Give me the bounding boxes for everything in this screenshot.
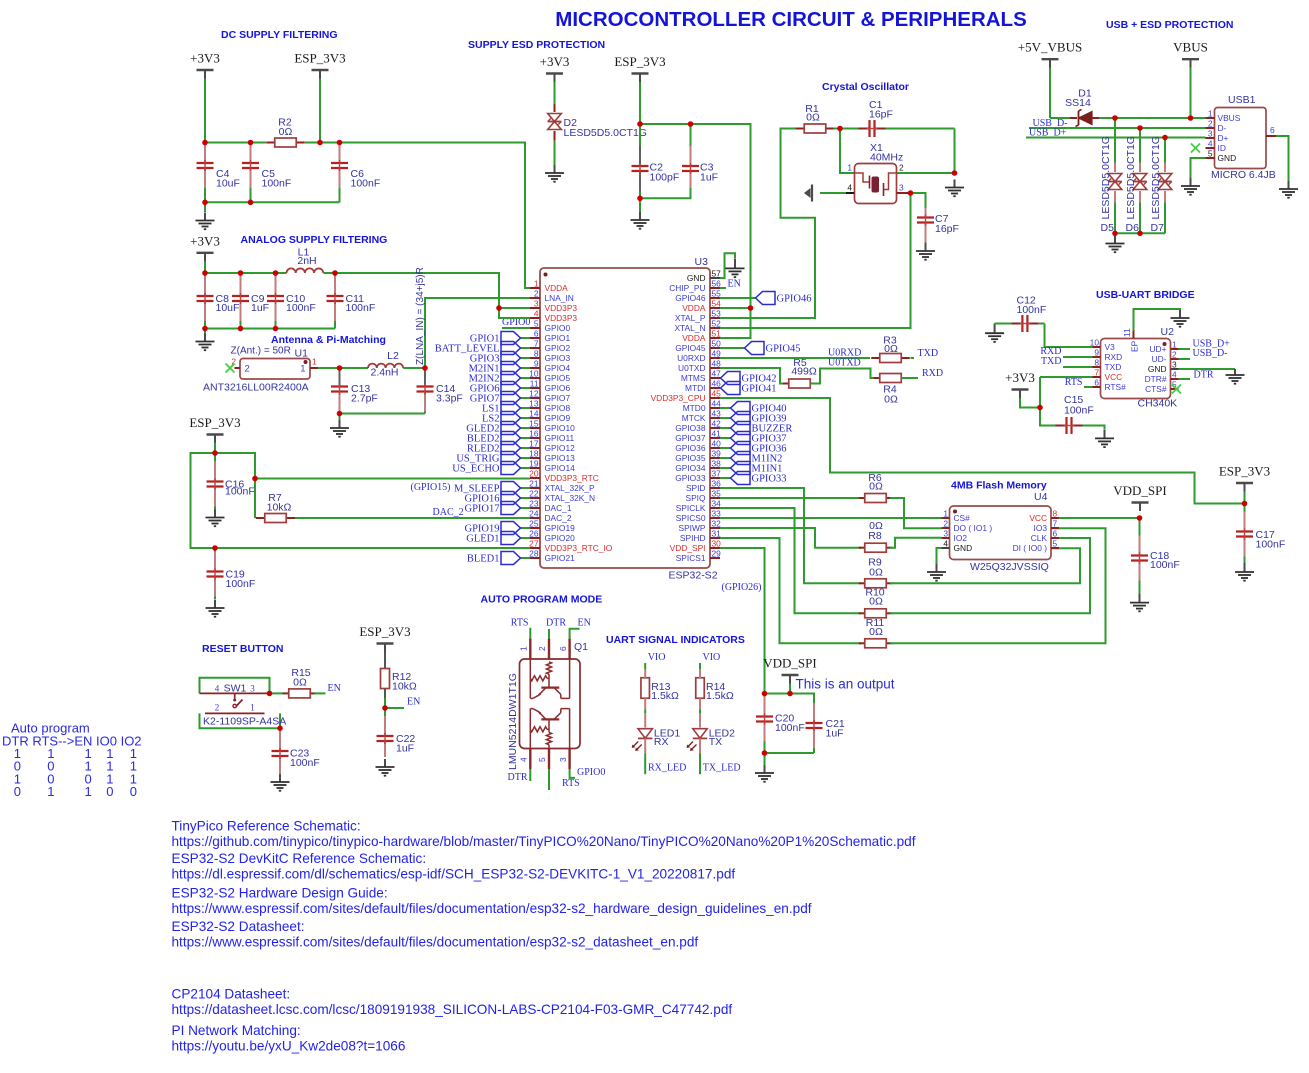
Q1 pin numbers top: [519, 646, 568, 651]
svg-text:1: 1: [1172, 340, 1177, 350]
svg-text:EN: EN: [407, 697, 420, 708]
power flag ESP_3V3 (EN pullup): [359, 624, 410, 652]
wire EN stub: [385, 707, 404, 709]
capacitor C7: [917, 208, 934, 243]
svg-text:10uF: 10uF: [216, 178, 240, 190]
inductor L1: [287, 268, 324, 273]
wire: [521, 417, 531, 419]
U4 left pins: [942, 509, 993, 554]
svg-text:23: 23: [529, 499, 539, 509]
svg-text:17: 17: [529, 439, 539, 449]
net label RTS (Q1 top): [511, 618, 529, 629]
U3 right pins: [651, 269, 722, 564]
svg-text:GPIO45: GPIO45: [766, 344, 801, 355]
svg-text:13: 13: [529, 399, 539, 409]
ground (C18): [1130, 594, 1149, 611]
svg-text:EN: EN: [328, 683, 341, 694]
svg-text:1: 1: [534, 279, 539, 289]
U1 orientation dot: [304, 360, 308, 364]
C18 labels: [1150, 550, 1180, 571]
net label TX_LED: [703, 763, 741, 774]
resistor R10: [859, 609, 893, 618]
D6 vertical value label: [1125, 136, 1137, 219]
ground (C23): [271, 774, 290, 791]
wire D5 bottom: [1114, 203, 1116, 234]
wire U4 GND pin to ground: [937, 548, 942, 564]
wire: [521, 377, 531, 379]
svg-text:+3V3: +3V3: [1005, 370, 1035, 385]
svg-text:2: 2: [245, 364, 250, 375]
wire top rail DC: [205, 142, 266, 144]
wire ESD rail right and down to chip area: [640, 124, 751, 338]
svg-text:54: 54: [712, 299, 722, 309]
svg-text:+3V3: +3V3: [190, 51, 220, 66]
U4 orientation dot: [953, 510, 957, 514]
wire: [521, 337, 531, 339]
C9 labels: [251, 293, 269, 314]
svg-text:55: 55: [712, 289, 722, 299]
switch SW1 wiring loop bottom: [200, 713, 281, 728]
svg-text:38: 38: [712, 459, 722, 469]
ground (U2 EP): [1171, 310, 1190, 327]
wire analog bottom rail: [205, 328, 335, 330]
wire GPIO45: [720, 347, 745, 349]
D7 ref label: [1151, 222, 1165, 234]
wire ESP_3V3 to junction: [214, 443, 216, 454]
wire rail right to R7 branch: [215, 453, 255, 479]
wire Q1 pin6 top: [570, 629, 580, 639]
wire +5V_VBUS down: [1049, 68, 1051, 119]
svg-text:20: 20: [529, 469, 539, 479]
svg-text:11: 11: [530, 379, 539, 389]
power flag ESP_3V3 (DC filter): [294, 51, 345, 79]
net label EN (Q1 top): [578, 618, 591, 629]
net label DAC_2: [433, 507, 464, 518]
net label USB_D- (U2): [1193, 348, 1228, 359]
svg-text:10: 10: [529, 369, 539, 379]
svg-text:LESD5D5.0CT1G: LESD5D5.0CT1G: [1125, 136, 1137, 219]
wire junction to L2: [340, 367, 369, 369]
svg-text:50: 50: [712, 339, 722, 349]
junction: [332, 270, 338, 276]
wire U0RXD row to R3: [720, 357, 870, 359]
svg-text:GPIO4: GPIO4: [545, 363, 571, 373]
resistor R11: [859, 639, 893, 648]
svg-text:2: 2: [899, 163, 904, 173]
svg-text:UART SIGNAL INDICATORS: UART SIGNAL INDICATORS: [606, 634, 745, 646]
svg-text:42: 42: [712, 419, 722, 429]
svg-text:GPIO0: GPIO0: [577, 767, 605, 778]
svg-text:ESP_3V3: ESP_3V3: [294, 51, 345, 66]
svg-text:GPIO9: GPIO9: [545, 413, 571, 423]
svg-text:USB_D-: USB_D-: [1193, 348, 1228, 359]
wire SPID pin36 to R9: [720, 488, 861, 583]
svg-text:GPIO17: GPIO17: [464, 504, 499, 515]
net label RTS (U2): [1065, 377, 1083, 388]
svg-text:SPICLK: SPICLK: [676, 503, 706, 513]
svg-text:1: 1: [943, 509, 948, 519]
svg-text:0Ω: 0Ω: [806, 112, 820, 124]
ground (C7): [916, 243, 935, 260]
capacitor C12: [995, 315, 1045, 332]
section header SUPPLY ESD PROTECTION: [468, 39, 605, 51]
USB1 ref: [1228, 94, 1256, 106]
C7 labels: [935, 213, 959, 235]
svg-text:Q1: Q1: [574, 641, 588, 653]
svg-text:https://github.com/tinypico/ti: https://github.com/tinypico/tinypico-har…: [172, 834, 916, 849]
vertical text Z(LNA_IN): [415, 267, 426, 365]
wire SPIWP pin32 to R8: [720, 528, 861, 548]
svg-text:3: 3: [899, 183, 904, 193]
capacitor C5: [242, 143, 259, 203]
svg-text:SPIHD: SPIHD: [680, 533, 706, 543]
svg-text:XTAL_P: XTAL_P: [675, 313, 706, 323]
svg-text:VDD3P3_CPU: VDD3P3_CPU: [651, 393, 706, 403]
wire: [720, 417, 731, 419]
global label BUZZER: [731, 422, 793, 435]
wire resistor to LED: [644, 698, 646, 727]
wire C12 right to V3 pin: [1045, 324, 1101, 348]
wire U2 GND to ground: [1179, 368, 1236, 370]
R9 labels: [868, 557, 883, 579]
svg-text:GPIO20: GPIO20: [545, 533, 576, 543]
global label GPIO3: [470, 352, 521, 365]
wire R6 right to flash DO: [890, 498, 942, 528]
resistor R6: [859, 494, 893, 503]
svg-text:GPIO33: GPIO33: [675, 473, 706, 483]
wire D5 top: [1114, 118, 1116, 163]
wire D6 bottom: [1139, 203, 1141, 234]
svg-text:https://www.espressif.com/site: https://www.espressif.com/sites/default/…: [172, 934, 699, 949]
svg-text:VCC: VCC: [1105, 372, 1123, 382]
svg-text:RX_LED: RX_LED: [648, 763, 686, 774]
junction: [1037, 405, 1043, 411]
ground (C16): [206, 510, 225, 527]
svg-text:15: 15: [529, 419, 539, 429]
wire cap rail top: [765, 694, 815, 704]
resistor R3: [871, 354, 910, 363]
junction: [908, 190, 914, 196]
svg-text:ESP_3V3: ESP_3V3: [1219, 464, 1270, 479]
net label TXD (U2): [1041, 356, 1062, 367]
D7 vertical value label: [1150, 136, 1162, 219]
junction: [952, 170, 958, 176]
svg-text:USB-UART BRIDGE: USB-UART BRIDGE: [1096, 289, 1195, 301]
R1 labels: [805, 103, 820, 124]
R7 labels: [267, 492, 292, 514]
svg-text:16pF: 16pF: [935, 223, 959, 235]
svg-text:GND: GND: [1218, 153, 1237, 163]
svg-text:CTS#: CTS#: [1145, 384, 1167, 394]
svg-text:DTR: DTR: [546, 618, 566, 629]
svg-text:SW1: SW1: [224, 682, 247, 694]
ground (C15): [1095, 429, 1114, 447]
svg-text:TXD: TXD: [1041, 356, 1062, 367]
SW1 pin numbers 2 and 1: [215, 702, 255, 712]
USB1 left pins: [1206, 109, 1241, 164]
wire GPIO46: [720, 297, 756, 299]
svg-text:100nF: 100nF: [286, 302, 316, 314]
global label GPIO37: [731, 432, 787, 445]
svg-text:7: 7: [1053, 519, 1058, 529]
svg-text:14: 14: [529, 409, 539, 419]
resistor R4: [874, 374, 908, 383]
svg-text:RXD: RXD: [1105, 352, 1123, 362]
section header AUTO PROGRAM MODE: [481, 594, 603, 606]
section header UART SIGNAL INDICATORS: [606, 634, 745, 646]
section header 4MB Flash Memory: [951, 480, 1047, 492]
svg-text:VDD3P3_RTC_IO: VDD3P3_RTC_IO: [545, 543, 613, 553]
svg-text:GPIO41: GPIO41: [742, 384, 777, 395]
svg-text:UD+: UD+: [1150, 344, 1167, 354]
svg-text:DTR: DTR: [508, 772, 528, 783]
svg-text:ESP_3V3: ESP_3V3: [189, 415, 240, 430]
no-connect X on U1 pin2: [226, 364, 235, 373]
svg-text:XTAL_N: XTAL_N: [674, 323, 705, 333]
junction: [762, 691, 768, 697]
capacitor C15: [1050, 417, 1093, 434]
svg-text:DTR#: DTR#: [1145, 374, 1167, 384]
svg-text:52: 52: [712, 319, 722, 329]
wire VIO stub: [699, 663, 701, 669]
wire RTS to U2: [1084, 386, 1093, 388]
svg-text:VDD_SPI: VDD_SPI: [763, 656, 816, 671]
svg-text:GND: GND: [954, 543, 973, 553]
power flag ESP_3V3 (ESD): [614, 54, 665, 82]
Q1 vertical value label LMUN5214DW1T1G: [507, 673, 519, 770]
ground (C12): [985, 324, 1004, 342]
power flag +5V_VBUS: [1018, 40, 1082, 68]
svg-text:2nH: 2nH: [297, 255, 316, 267]
svg-text:1.5kΩ: 1.5kΩ: [706, 690, 734, 702]
svg-text:57: 57: [712, 269, 722, 279]
svg-text:GPIO34: GPIO34: [675, 463, 706, 473]
svg-text:11: 11: [1122, 328, 1132, 337]
svg-text:7: 7: [1094, 368, 1099, 378]
svg-text:4: 4: [1208, 139, 1213, 149]
svg-text:VDD3P3: VDD3P3: [545, 303, 578, 313]
svg-text:RESET BUTTON: RESET BUTTON: [202, 643, 283, 655]
svg-text:3: 3: [558, 757, 568, 762]
ground (C22): [376, 759, 395, 776]
wire: [720, 467, 731, 469]
TVS diode D2: [548, 104, 562, 141]
power flag +3V3 (U2): [1005, 370, 1035, 398]
junction: [317, 140, 323, 146]
svg-text:34: 34: [712, 499, 722, 509]
svg-text:GPIO0: GPIO0: [545, 323, 571, 333]
global label M1IN2: [731, 452, 783, 465]
svg-text:1uF: 1uF: [251, 302, 269, 314]
svg-text:10uF: 10uF: [216, 302, 240, 314]
wire resistor to LED: [699, 698, 701, 727]
svg-text:46: 46: [712, 379, 722, 389]
capacitor C2: [632, 124, 649, 198]
svg-text:0: 0: [106, 784, 113, 799]
LED2 labels: [709, 728, 735, 749]
R4 labels: [883, 384, 898, 406]
wire to ground: [204, 329, 206, 334]
wire TXD to U2: [1063, 366, 1093, 368]
svg-text:1: 1: [1208, 109, 1213, 119]
junction: [1137, 231, 1143, 237]
svg-text:EN: EN: [728, 279, 741, 290]
svg-text:6: 6: [1094, 378, 1099, 388]
IC U3 ESP32-S2 body: [540, 268, 710, 568]
ground (C2 C3): [631, 212, 650, 229]
wire Q1 pin3 bottom: [570, 769, 575, 778]
svg-text:RTS#: RTS#: [1105, 382, 1127, 392]
wire to ground: [764, 753, 766, 765]
C17 labels: [1256, 529, 1286, 551]
svg-text:LMUN5214DW1T1G: LMUN5214DW1T1G: [507, 673, 519, 770]
svg-text:DTR RTS-->EN IO0 IO2: DTR RTS-->EN IO0 IO2: [2, 734, 142, 749]
wire VDD3P3_RTC_IO row to chip pin27: [215, 547, 530, 549]
wire pin56 EN stub: [720, 287, 726, 289]
wire rail loop left down: [191, 453, 216, 548]
svg-text:VDD3P3: VDD3P3: [545, 313, 578, 323]
wire SPICS0 pin33 to flash CS: [720, 517, 942, 519]
resistor R13: [641, 678, 650, 699]
C4 labels: [216, 168, 240, 190]
C20 labels: [775, 713, 805, 735]
svg-text:10kΩ: 10kΩ: [392, 681, 417, 693]
svg-text:U1: U1: [295, 348, 309, 360]
U4 value W25Q32JVSSIQ: [970, 561, 1049, 573]
svg-text:https://www.espressif.com/site: https://www.espressif.com/sites/default/…: [172, 901, 812, 916]
net label USB_D+: [1029, 127, 1067, 138]
svg-text:R8: R8: [868, 530, 882, 542]
USB1 value MICRO 6.4JB: [1211, 169, 1276, 181]
svg-text:2: 2: [534, 289, 539, 299]
TVS diode D7: [1158, 163, 1172, 203]
svg-text:GPIO19: GPIO19: [545, 523, 576, 533]
wire D7 bottom: [1164, 203, 1166, 234]
svg-text:30: 30: [712, 539, 722, 549]
svg-text:D6: D6: [1126, 222, 1140, 234]
section header ANALOG SUPPLY FILTERING: [241, 234, 388, 246]
svg-text:UD-: UD-: [1152, 354, 1167, 364]
resistor R14: [696, 678, 705, 699]
C13 labels: [351, 383, 378, 405]
svg-text:ESP_3V3: ESP_3V3: [359, 624, 410, 639]
svg-text:4: 4: [1172, 370, 1177, 380]
junction: [248, 200, 254, 206]
wire: [521, 497, 531, 499]
svg-text:ESP32-S2 DevKitC Reference Sch: ESP32-S2 DevKitC Reference Schematic:: [172, 851, 427, 866]
section header RESET BUTTON: [202, 643, 283, 655]
wire C15 right to ground: [1093, 426, 1105, 430]
global label M2IN2: [469, 372, 521, 385]
svg-text:6: 6: [534, 329, 539, 339]
resistor R12: [381, 669, 390, 689]
C16 labels: [225, 479, 255, 498]
power flag VDD_SPI (flash): [1113, 483, 1166, 511]
wire: [720, 437, 731, 439]
C2 labels: [650, 162, 680, 184]
svg-text:DC SUPPLY FILTERING: DC SUPPLY FILTERING: [221, 29, 338, 41]
svg-text:+3V3: +3V3: [540, 54, 570, 69]
svg-text:9: 9: [534, 359, 539, 369]
U1 ref: [295, 348, 309, 360]
net label DTR (Q1 bottom): [508, 772, 528, 783]
global label GPIO36: [731, 442, 787, 455]
svg-text:0Ω: 0Ω: [869, 481, 883, 493]
wire: [521, 397, 531, 399]
wire junction down to crystal pin1: [840, 129, 854, 174]
svg-text:0Ω: 0Ω: [869, 596, 883, 608]
svg-text:3: 3: [1172, 360, 1177, 370]
wire R15 right: [314, 692, 326, 694]
svg-text:5: 5: [1208, 149, 1213, 159]
wire: [521, 507, 531, 509]
svg-text:USB + ESD PROTECTION: USB + ESD PROTECTION: [1106, 19, 1233, 31]
connector USB1 body: [1215, 108, 1267, 169]
junction: [1137, 125, 1143, 131]
junction: [337, 140, 343, 146]
svg-text:USB1: USB1: [1228, 94, 1256, 106]
wire D6 top: [1139, 128, 1141, 163]
wire Q1 pin5 bottom: [548, 769, 550, 790]
svg-text:LESD5D5.0CT1G: LESD5D5.0CT1G: [564, 127, 647, 139]
wire DTR stub: [1179, 378, 1191, 380]
svg-text:Z(LNA_IN) = (34+j5)R: Z(LNA_IN) = (34+j5)R: [415, 267, 426, 365]
wire: [521, 367, 531, 369]
wire XTAL_P from chip to R1 left: [720, 129, 815, 319]
wire R8 right to flash IO2: [890, 538, 942, 548]
comment label (GPIO15): [411, 482, 451, 493]
capacitor C23: [272, 728, 289, 774]
svg-text:4: 4: [534, 309, 539, 319]
net label RTS (Q1 bottom): [562, 778, 580, 789]
net label RX_LED: [648, 763, 686, 774]
svg-text:SPIQ: SPIQ: [685, 493, 705, 503]
antenna U1 body: [240, 359, 310, 380]
U3 ref: [695, 256, 709, 268]
ground (C19): [206, 600, 225, 617]
C11 labels: [346, 293, 376, 314]
svg-text:24: 24: [529, 509, 539, 519]
svg-text:TXD: TXD: [1105, 362, 1122, 372]
wire analog top rail: [205, 272, 287, 274]
svg-text:1: 1: [847, 163, 852, 173]
section header Antenna & Pi-Matching: [271, 334, 386, 346]
D2 labels: [564, 117, 647, 139]
wire VCC to VDD_SPI: [1059, 517, 1140, 519]
svg-text:LESD5D5.0CT1G: LESD5D5.0CT1G: [1150, 136, 1162, 219]
global label US_TRIG: [456, 452, 520, 465]
svg-text:9: 9: [1094, 348, 1099, 358]
wire: [521, 387, 531, 389]
svg-text:IO3: IO3: [1034, 523, 1048, 533]
svg-text:53: 53: [712, 309, 722, 319]
R8 labels: [868, 520, 883, 542]
wire antenna to junction: [318, 367, 340, 369]
U4 right pins: [1013, 509, 1059, 554]
wire Q1 pin2 top: [548, 629, 550, 639]
svg-text:1uF: 1uF: [396, 743, 414, 755]
global label GPIO45: [745, 342, 801, 355]
svg-text:XTAL_32K_P: XTAL_32K_P: [545, 483, 596, 493]
wire: [521, 437, 531, 439]
section header Crystal Oscillator: [822, 81, 909, 93]
transistor pack Q1 LMUN5214DW1T1G: [520, 639, 581, 769]
svg-text:1: 1: [312, 357, 317, 367]
svg-text:U0RXD: U0RXD: [677, 353, 705, 363]
svg-text:D-: D-: [1218, 123, 1227, 133]
section header DC SUPPLY FILTERING: [221, 29, 338, 41]
net label USB_D+ (U2): [1193, 339, 1231, 350]
